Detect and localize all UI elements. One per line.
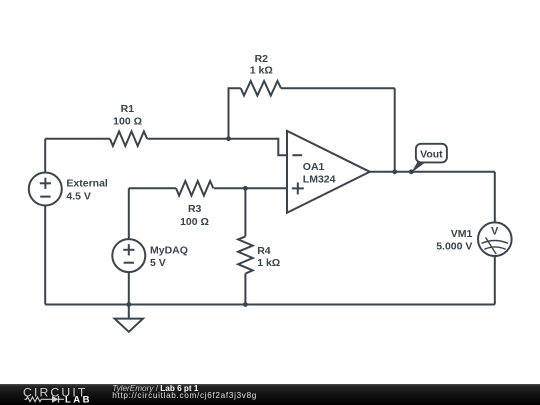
resistor R3 [176, 181, 213, 196]
wire MyDAQ bottom [128, 272, 130, 304]
voltmeter VM1 [478, 222, 512, 256]
svg-text:LAB: LAB [65, 395, 92, 405]
resistor R1 [110, 131, 147, 146]
wire R2 right vertical down to output [394, 88, 396, 172]
svg-text:100 Ω: 100 Ω [180, 216, 209, 228]
label V on voltmeter [491, 226, 499, 238]
svg-text:100 Ω: 100 Ω [113, 116, 142, 128]
wire R1 to inverting branch [147, 138, 278, 140]
svg-text:Vout: Vout [420, 149, 443, 161]
svg-text:LM324: LM324 [303, 174, 336, 186]
svg-text:External: External [66, 177, 108, 189]
svg-text:4.5 V: 4.5 V [66, 191, 91, 203]
svg-text:V: V [491, 226, 499, 238]
voltage source V1 External [29, 173, 62, 206]
label External 4.5 V [66, 177, 108, 202]
wire right vertical below voltmeter [494, 256, 496, 305]
svg-text:1 kΩ: 1 kΩ [257, 257, 280, 269]
label R2 1 kΩ [250, 53, 273, 76]
wire op-amp output [370, 171, 495, 173]
wire left vertical below source [44, 206, 46, 305]
svg-text:OA1: OA1 [303, 161, 325, 173]
svg-text:R4: R4 [257, 245, 271, 257]
wire MyDAQ top [128, 188, 130, 239]
label R4 1 kΩ [257, 245, 280, 269]
wire step into op-amp inverting input [278, 138, 287, 156]
label MyDAQ 5 V [150, 244, 188, 269]
svg-text:R1: R1 [121, 103, 135, 115]
wire R3 to op-amp non-inverting input [214, 187, 287, 189]
label R3 100 Ω [180, 203, 209, 228]
junction R4 bottom [243, 302, 248, 307]
wire R4 top [244, 188, 246, 236]
junction feedback tap [392, 169, 397, 174]
label Vout [420, 149, 443, 161]
wire R2 right horizontal [281, 87, 395, 89]
junction Vout tap [409, 169, 414, 174]
label OA1 LM324 [303, 161, 336, 185]
footer bar [0, 384, 540, 405]
svg-text:5.000 V: 5.000 V [436, 240, 472, 252]
label R1 100 Ω [113, 103, 142, 128]
junction ground node [126, 302, 131, 307]
svg-text:5 V: 5 V [150, 257, 166, 269]
svg-text:1 kΩ: 1 kΩ [250, 65, 273, 77]
wire right vertical above voltmeter [494, 172, 496, 223]
credit text [112, 385, 257, 400]
svg-text:R3: R3 [188, 203, 202, 215]
op-amp OA1 [287, 131, 370, 213]
node Vout flag [411, 144, 447, 173]
svg-text:VM1: VM1 [451, 228, 473, 240]
svg-text:MyDAQ: MyDAQ [150, 244, 188, 256]
ground [115, 305, 143, 332]
voltage source V2 MyDAQ [112, 239, 145, 272]
wire bottom rail [45, 304, 495, 306]
svg-text:R2: R2 [255, 53, 269, 65]
wire top-left horizontal (source to R1) [45, 138, 110, 140]
CircuitLab logo [0, 384, 110, 405]
resistor R2 [241, 81, 281, 96]
junction non-inverting node [243, 186, 248, 191]
wire left vertical above source [44, 139, 46, 173]
wire R2 left vertical [229, 88, 241, 138]
wire plus input (MyDAQ to R3) [129, 187, 176, 189]
label VM1 5.000 V [436, 228, 472, 253]
resistor R4 [238, 236, 253, 273]
junction inverting node [226, 136, 231, 141]
wire R4 bottom [244, 274, 246, 305]
